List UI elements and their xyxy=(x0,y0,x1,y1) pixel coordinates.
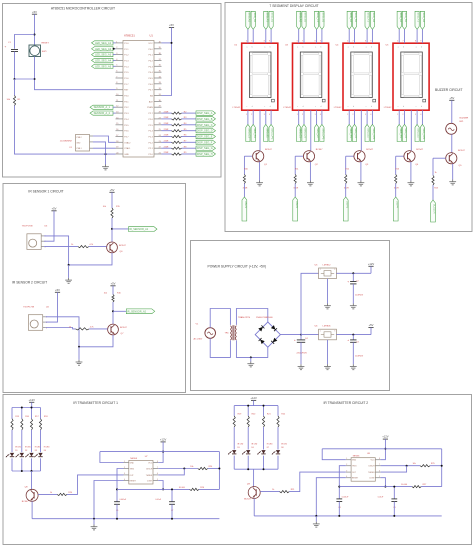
svg-text:2200uF50V: 2200uF50V xyxy=(297,353,308,355)
ground xyxy=(350,304,357,309)
wire pin22 to R8 xyxy=(162,147,172,149)
svg-text:IR LED: IR LED xyxy=(267,444,273,446)
wire base xyxy=(346,155,354,157)
wire pin4 to rail xyxy=(94,481,124,519)
wire R1 to ground rail xyxy=(15,106,116,155)
wire base to R xyxy=(395,156,397,174)
digit outline xyxy=(250,52,272,98)
svg-text:SEG_DP1: SEG_DP1 xyxy=(372,128,375,140)
wire emitter xyxy=(452,164,454,180)
svg-text:6: 6 xyxy=(157,473,158,475)
wire display to tag xyxy=(321,110,323,124)
pin 33 P0.6 xyxy=(154,83,162,85)
svg-text:IR LED: IR LED xyxy=(281,444,287,446)
wire rail to pin1 xyxy=(100,452,124,463)
svg-text:VCC: VCC xyxy=(148,43,153,45)
svg-text:0.001uF: 0.001uF xyxy=(342,496,349,498)
svg-text:SEG_A1: SEG_A1 xyxy=(298,13,301,23)
net tag segment A xyxy=(397,11,401,29)
svg-text:8: 8 xyxy=(315,41,316,43)
ground xyxy=(298,364,305,369)
wire pin3 to R xyxy=(44,246,78,248)
svg-text:LED_SEG_A2: LED_SEG_A2 xyxy=(95,48,112,51)
net tag segment B xyxy=(352,11,356,29)
segment g xyxy=(354,73,369,75)
svg-text:1: 1 xyxy=(346,458,347,460)
svg-text:RST: RST xyxy=(124,90,129,92)
svg-text:SEG_G1: SEG_G1 xyxy=(322,13,325,23)
svg-text:TSOP1738: TSOP1738 xyxy=(23,307,35,309)
ground xyxy=(324,364,331,369)
node discharge xyxy=(406,465,408,467)
pin 3 OUT xyxy=(346,471,351,473)
svg-text:TRIG: TRIG xyxy=(352,466,357,468)
svg-text:SEG_E1: SEG_E1 xyxy=(367,128,370,138)
wire VCC to EA xyxy=(162,28,172,96)
svg-text:9: 9 xyxy=(370,41,371,43)
wire to ground xyxy=(250,357,252,361)
pin 17 P3.7 xyxy=(116,136,124,138)
node control cap xyxy=(393,486,395,488)
svg-text:IR LED: IR LED xyxy=(15,446,21,448)
svg-text:DISP_SEG_F: DISP_SEG_F xyxy=(197,141,213,144)
svg-text:10uF50V: 10uF50V xyxy=(355,294,364,296)
pin 5 CONT xyxy=(153,480,158,482)
pin 8 VCC xyxy=(153,462,158,464)
wire control cap branch xyxy=(393,487,395,499)
svg-text:3: 3 xyxy=(415,114,416,116)
svg-text:8: 8 xyxy=(379,458,380,460)
svg-text:4: 4 xyxy=(320,114,321,116)
pin 25 P2.4 xyxy=(154,130,162,132)
svg-text:2: 2 xyxy=(403,114,404,116)
segment f xyxy=(250,55,252,72)
svg-text:220R: 220R xyxy=(164,117,169,119)
node gnd rail junction xyxy=(105,153,107,155)
segment f xyxy=(301,55,303,72)
svg-text:BC547: BC547 xyxy=(119,245,126,247)
wire base xyxy=(260,491,279,493)
node +5V cap junction xyxy=(352,334,354,336)
svg-text:LTS542: LTS542 xyxy=(384,107,392,109)
wire R to collector xyxy=(112,302,114,324)
pin 36 P0.3 xyxy=(154,65,162,67)
wire R to LED xyxy=(247,427,249,449)
svg-text:SEG_D1: SEG_D1 xyxy=(253,128,256,138)
pin 2 TRIG xyxy=(346,465,351,467)
svg-text:LTS542: LTS542 xyxy=(233,107,241,109)
wire secondary top xyxy=(236,309,267,325)
svg-text:DISP_SEG_D: DISP_SEG_D xyxy=(197,130,213,133)
svg-text:3: 3 xyxy=(346,470,347,472)
wire pin5 to node xyxy=(381,478,386,487)
svg-text:3: 3 xyxy=(264,114,265,116)
wire Ra right xyxy=(208,468,220,470)
pin 3 xyxy=(43,327,46,329)
wire tag to display xyxy=(421,29,423,43)
wire column 3 top xyxy=(31,408,33,419)
wire crystal GND to rail xyxy=(93,142,106,154)
wire R to tag xyxy=(182,112,197,114)
wire tag to pin xyxy=(113,112,116,114)
svg-text:LTS542: LTS542 xyxy=(334,107,342,109)
wire tag to pin xyxy=(113,65,116,67)
svg-text:SEG_DP1: SEG_DP1 xyxy=(271,128,274,140)
wire tag to display xyxy=(404,29,406,43)
wire display to tag xyxy=(366,110,368,124)
svg-text:SEG_F1: SEG_F1 xyxy=(417,13,420,23)
wire column 1 top xyxy=(233,406,235,416)
svg-text:1: 1 xyxy=(347,114,348,116)
svg-text:IR_SENSOR_A1: IR_SENSOR_A1 xyxy=(129,228,149,231)
svg-text:10uF50V: 10uF50V xyxy=(355,356,364,358)
svg-text:THRES: THRES xyxy=(146,475,153,477)
svg-text:BC547: BC547 xyxy=(458,150,465,152)
net tag DISP3 xyxy=(343,197,348,221)
wire pin21 to R9 xyxy=(162,153,172,155)
wire display to tag xyxy=(298,110,300,124)
net tag segment G xyxy=(269,11,273,29)
wire display common to Q3 xyxy=(360,110,362,151)
pin 22 P2.1 xyxy=(154,147,162,149)
7-segment display U4 LTS542 xyxy=(343,43,379,110)
wire button to reset node xyxy=(35,57,116,90)
frame power supply circuit xyxy=(191,241,390,391)
wire tag to pin xyxy=(113,54,116,56)
svg-text:7: 7 xyxy=(353,41,354,43)
svg-text:BC547: BC547 xyxy=(366,149,373,151)
net tag DISP_SEG_D xyxy=(196,129,216,133)
ground xyxy=(324,304,331,309)
net tag DISP4 xyxy=(393,197,398,221)
svg-text:RESET: RESET xyxy=(352,478,359,480)
wire LED to bus xyxy=(263,456,265,470)
net tag LED_SEG_A3 xyxy=(92,53,114,57)
svg-text:NE555: NE555 xyxy=(130,458,137,460)
svg-text:PSEN: PSEN xyxy=(147,107,153,109)
node rail junction xyxy=(68,264,70,266)
svg-text:5: 5 xyxy=(379,476,380,478)
wire bottom bus xyxy=(234,468,278,470)
svg-text:SEG_A1: SEG_A1 xyxy=(399,13,402,23)
svg-text:8: 8 xyxy=(157,461,158,463)
pin 24 P2.3 xyxy=(154,136,162,138)
node timing xyxy=(116,488,118,490)
wire tag to display xyxy=(416,29,418,43)
pin XTAL1 xyxy=(90,147,94,149)
net tag DISP2 xyxy=(293,197,298,221)
svg-text:1k: 1k xyxy=(71,244,73,246)
net tag DISP1 xyxy=(242,197,247,221)
wire cap to rail xyxy=(116,504,118,518)
svg-text:4: 4 xyxy=(269,114,270,116)
svg-text:THRES: THRES xyxy=(368,472,375,474)
node top bus xyxy=(247,405,249,407)
svg-text:GND: GND xyxy=(130,462,135,464)
wire R to collector xyxy=(111,218,113,242)
pin GND xyxy=(90,141,94,143)
wire display to tag xyxy=(398,110,400,124)
svg-text:IR LED: IR LED xyxy=(25,446,31,448)
node rail junction xyxy=(78,346,80,348)
svg-text:1k: 1k xyxy=(272,489,274,491)
wire pin2 to timing cap xyxy=(117,469,124,502)
wire R to LED xyxy=(21,430,23,452)
svg-text:SEG_D1: SEG_D1 xyxy=(354,128,357,138)
wire bridge output xyxy=(280,334,301,336)
pin 28 P2.7 xyxy=(154,112,162,114)
wire display to tag xyxy=(416,110,418,124)
wire column 2 top xyxy=(21,408,23,419)
wire pin1 to rail xyxy=(44,236,69,265)
wire rail drop to Ra and Rb xyxy=(441,449,443,487)
ground xyxy=(408,181,415,186)
pin 21 P2.0 xyxy=(154,153,162,155)
wire Ra right xyxy=(430,465,442,467)
net tag segment D xyxy=(402,124,406,141)
pin 26 P2.5 xyxy=(154,124,162,126)
net tag DISP_SEG_B xyxy=(196,117,216,121)
svg-text:LM7805: LM7805 xyxy=(323,326,332,328)
pin 11 P3.1 xyxy=(116,100,124,102)
svg-text:SEG_DP1: SEG_DP1 xyxy=(322,128,325,140)
net tag segment D xyxy=(352,124,356,141)
svg-text:D4: D4 xyxy=(44,450,46,452)
svg-text:SEG_DP1: SEG_DP1 xyxy=(422,128,425,140)
svg-text:NE555: NE555 xyxy=(353,455,360,457)
svg-text:BC547: BC547 xyxy=(244,498,251,500)
svg-text:BC547: BC547 xyxy=(22,501,29,503)
wire tag to display xyxy=(252,29,254,43)
node rail xyxy=(338,515,340,517)
svg-text:330R: 330R xyxy=(344,187,349,189)
node bottom bus xyxy=(263,468,265,470)
svg-text:0.01uF: 0.01uF xyxy=(378,496,384,498)
net tag DISP_SEG_F xyxy=(196,140,216,144)
svg-text:SEG_A1: SEG_A1 xyxy=(248,13,251,23)
wire Rb right xyxy=(421,486,441,488)
pin 40 VCC xyxy=(154,42,162,44)
net tag LED_SEG_A5 xyxy=(92,64,114,68)
svg-text:SEG_B1: SEG_B1 xyxy=(354,13,357,23)
pin 5 P1.4 xyxy=(116,65,124,67)
svg-text:GND: GND xyxy=(352,460,357,462)
wire display to tag xyxy=(404,110,406,124)
svg-text:SEG_G1: SEG_G1 xyxy=(271,13,274,23)
wire to ground xyxy=(105,154,107,164)
frame IR transmitter circuit xyxy=(3,395,472,545)
wire Ra to pin7 xyxy=(158,468,197,470)
wire to ground xyxy=(78,347,80,360)
node rail xyxy=(116,518,118,520)
pin 32 P0.7 xyxy=(154,89,162,91)
7-segment display U3 LTS542 xyxy=(293,43,329,110)
net tag DISP_SEG_E xyxy=(196,134,216,138)
digit outline xyxy=(300,52,322,98)
svg-text:3: 3 xyxy=(124,473,125,475)
net tag segment B xyxy=(402,11,406,29)
wire pin3 to R xyxy=(46,328,76,329)
net tag SENSOR_A_2 xyxy=(90,111,113,115)
pin 27 P2.6 xyxy=(154,118,162,120)
net tag segment A xyxy=(347,11,351,29)
svg-text:LED_SEG_A1: LED_SEG_A1 xyxy=(95,42,112,45)
microcontroller U1 AT89C51 xyxy=(123,41,154,158)
node +12V rail xyxy=(162,451,164,453)
wire R to tag xyxy=(182,130,197,132)
svg-text:TRIG: TRIG xyxy=(130,468,135,470)
svg-text:10 000: 10 000 xyxy=(401,484,408,486)
svg-text:IR SENSOR 1 CIRCUIT: IR SENSOR 1 CIRCUIT xyxy=(28,189,63,193)
wire control cap branch xyxy=(171,489,173,501)
pin 2 P1.1 xyxy=(116,48,124,50)
7-segment display U2 LTS542 xyxy=(242,43,278,110)
pin 13 P3.3 xyxy=(116,112,124,114)
svg-text:BUZZER: BUZZER xyxy=(460,117,469,119)
net tag segment C xyxy=(246,124,250,141)
pin 18 XTAL2 xyxy=(116,141,124,143)
pin 3 P1.2 xyxy=(116,54,124,56)
segment b xyxy=(268,55,270,72)
svg-text:3: 3 xyxy=(365,114,366,116)
segment c xyxy=(268,75,270,94)
net tag DISP_SEG_C xyxy=(196,123,216,127)
wire timing node across xyxy=(339,486,385,488)
wire pin5 to node xyxy=(158,481,163,490)
diode xyxy=(259,338,265,344)
net tag segment G xyxy=(420,11,424,29)
wire emitter xyxy=(410,162,412,181)
net tag SENSOR_1 xyxy=(129,227,158,232)
pin 8 P1.7 xyxy=(116,83,124,85)
wire node to tag xyxy=(113,310,126,312)
pin 10 P3.0 xyxy=(116,95,124,97)
net tag segment DP xyxy=(420,124,424,141)
wire cap to rail xyxy=(171,504,173,518)
svg-text:5: 5 xyxy=(157,479,158,481)
node ground tap xyxy=(250,356,252,358)
pin 3 OUT xyxy=(124,474,129,476)
svg-text:SEG_B1: SEG_B1 xyxy=(304,13,307,23)
svg-text:6: 6 xyxy=(347,41,348,43)
pin 4 RESET xyxy=(124,480,129,482)
svg-text:4: 4 xyxy=(420,114,421,116)
wire bus to collector xyxy=(253,469,255,487)
segment f xyxy=(402,55,404,72)
wire R to tag xyxy=(182,118,197,120)
svg-text:10k: 10k xyxy=(413,463,416,465)
svg-text:DISCH: DISCH xyxy=(369,466,376,468)
pin 9 RST xyxy=(116,89,124,91)
svg-text:220R: 220R xyxy=(164,129,169,131)
svg-text:SENSOR_A_2: SENSOR_A_2 xyxy=(94,112,111,115)
wire emitter to rail xyxy=(69,253,112,265)
pin 8 VCC xyxy=(375,459,380,461)
node VCC junction xyxy=(171,42,173,44)
svg-text:IR SENSOR 2 CIRCUIT: IR SENSOR 2 CIRCUIT xyxy=(12,281,47,285)
svg-text:0.001uF: 0.001uF xyxy=(120,499,127,501)
wire emitter xyxy=(259,162,261,181)
wire tag to display xyxy=(398,29,400,43)
wire emitter xyxy=(360,162,362,181)
segment d xyxy=(404,95,419,97)
wire LED to bus xyxy=(40,458,42,471)
frame IR sensor circuit xyxy=(3,184,186,393)
wire emitter to gnd rail xyxy=(31,501,33,518)
svg-text:330R: 330R xyxy=(243,187,248,189)
svg-text:SEG_C1: SEG_C1 xyxy=(399,128,402,138)
wire node to Rb xyxy=(385,486,412,488)
svg-text:1: 1 xyxy=(246,114,247,116)
net tag segment DP xyxy=(320,124,324,141)
net tag LED_SEG_A4 xyxy=(92,58,114,62)
wire pin1 to rail xyxy=(46,317,79,347)
frame AT89C51 microcontroller circuit xyxy=(3,4,222,178)
svg-text:4: 4 xyxy=(370,114,371,116)
wire R to 555 OUT xyxy=(289,472,346,492)
pin 12 P3.2 xyxy=(116,106,124,108)
wire cap to rail xyxy=(393,502,395,516)
svg-text:LTS542: LTS542 xyxy=(283,107,291,109)
segment b xyxy=(319,55,321,72)
wire tag to display xyxy=(371,29,373,43)
svg-text:BC547: BC547 xyxy=(416,149,423,151)
wire display to tag xyxy=(316,110,318,124)
svg-text:220R: 220R xyxy=(164,135,169,137)
wire display common to Q2 xyxy=(310,110,312,151)
svg-text:6: 6 xyxy=(397,41,398,43)
ground xyxy=(350,364,357,369)
pin 6 P1.5 xyxy=(116,71,124,73)
wire R13 to tag xyxy=(432,185,434,200)
wire tag to display xyxy=(265,29,267,43)
wire reset node xyxy=(15,78,35,80)
node pin2 wire xyxy=(113,48,115,50)
node reset divider xyxy=(34,78,36,80)
svg-text:IR_SENSOR_A2: IR_SENSOR_A2 xyxy=(127,310,147,313)
wire tag to display xyxy=(303,29,305,43)
svg-text:11.0592MHZ: 11.0592MHZ xyxy=(60,141,73,143)
svg-text:LED_SEG_A5: LED_SEG_A5 xyxy=(95,65,112,68)
segment e xyxy=(352,75,354,94)
svg-text:DISP_SEG_A: DISP_SEG_A xyxy=(197,112,213,115)
pin 7 P1.6 xyxy=(116,77,124,79)
wire rail to pin1 xyxy=(322,449,346,460)
wire base xyxy=(244,155,252,157)
wire node to Rb xyxy=(163,488,190,490)
svg-text:TSOP1738: TSOP1738 xyxy=(22,226,34,228)
ground xyxy=(91,525,98,530)
segment c xyxy=(370,75,372,94)
wire display to tag xyxy=(252,110,254,124)
svg-text:GND: GND xyxy=(76,142,81,144)
svg-text:AT89C51 MICROCONTROLLER CIRCUI: AT89C51 MICROCONTROLLER CIRCUIT xyxy=(51,6,115,10)
net tag segment E xyxy=(264,124,268,141)
node discharge xyxy=(183,468,185,470)
node reset rail xyxy=(93,518,95,520)
wire +5V to pin2 xyxy=(44,211,54,241)
svg-text:220R: 220R xyxy=(164,152,169,154)
node bottom bus xyxy=(247,468,249,470)
digit outline xyxy=(401,52,423,98)
segment g xyxy=(404,73,419,75)
wire tag to display xyxy=(348,29,350,43)
segment c xyxy=(420,75,422,94)
net tag segment G xyxy=(320,11,324,29)
node bottom bus xyxy=(31,470,33,472)
segment d xyxy=(304,95,319,97)
wire base xyxy=(396,155,404,157)
